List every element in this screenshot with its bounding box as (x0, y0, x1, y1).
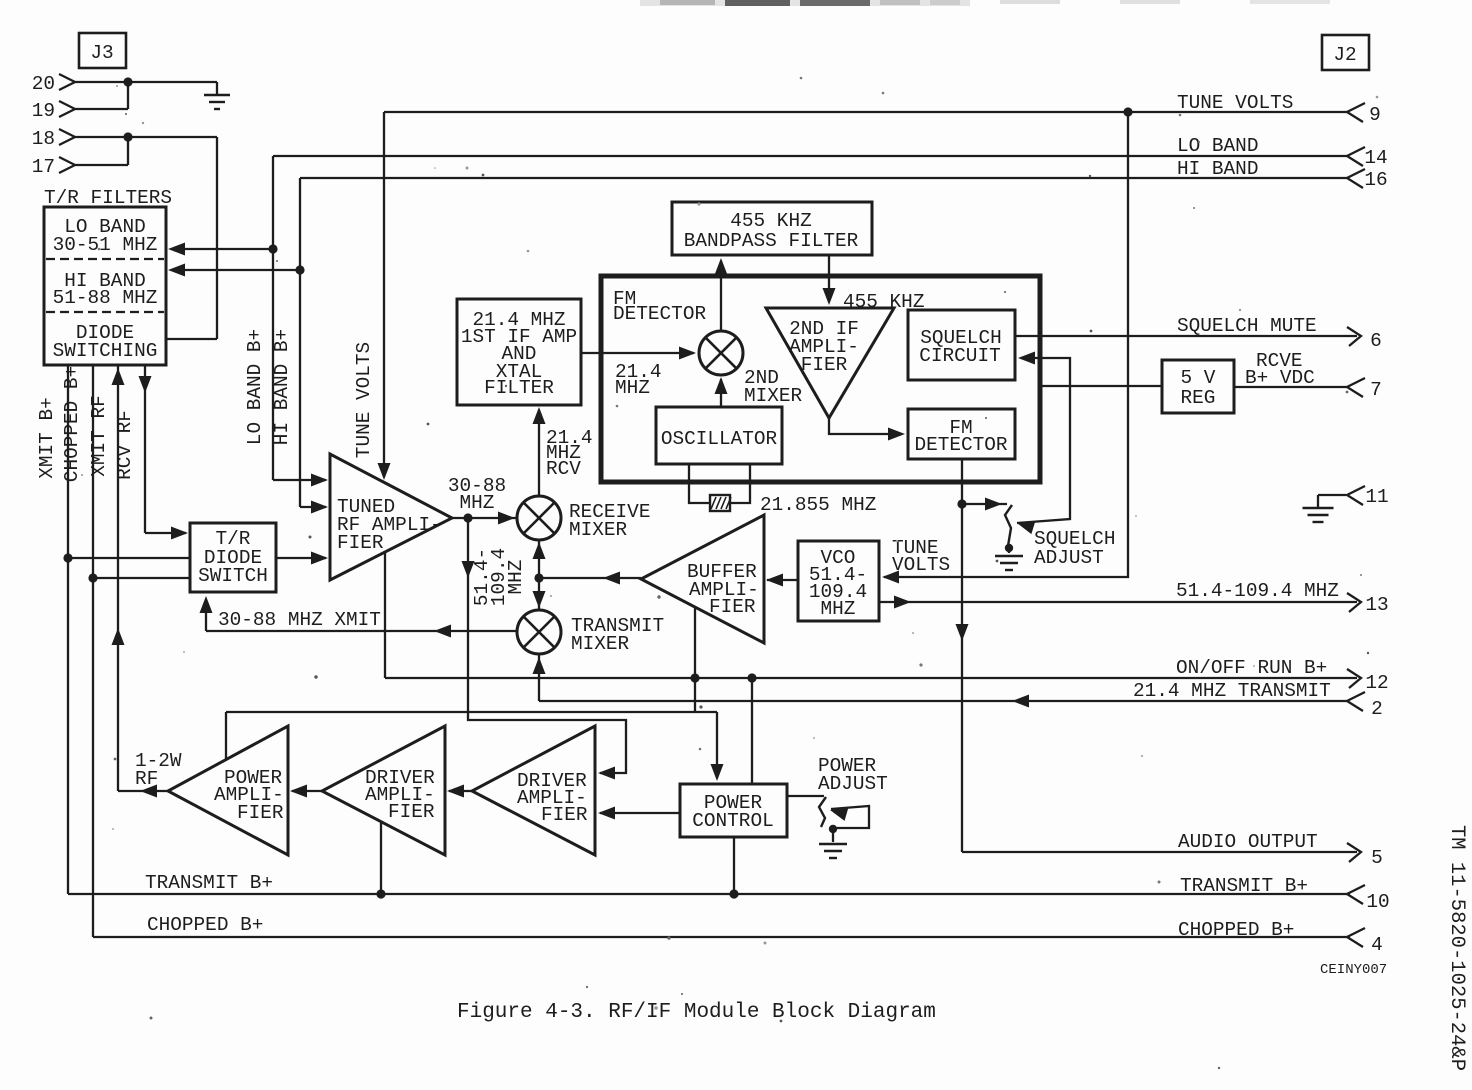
svg-text:51.4-109.4 MHZ: 51.4-109.4 MHZ (1176, 580, 1339, 602)
svg-text:OSCILLATOR: OSCILLATOR (661, 428, 778, 450)
svg-text:MHZ: MHZ (615, 377, 650, 399)
svg-text:455 KHZ: 455 KHZ (730, 210, 811, 232)
svg-text:RF: RF (135, 768, 158, 790)
svg-text:AUDIO OUTPUT: AUDIO OUTPUT (1178, 831, 1318, 853)
svg-text:TM 11-5820-1025-24&P: TM 11-5820-1025-24&P (1445, 825, 1468, 1071)
svg-text:TUNE VOLTS: TUNE VOLTS (353, 342, 375, 458)
svg-text:13: 13 (1365, 594, 1388, 616)
svg-text:HI BAND: HI BAND (1177, 158, 1258, 180)
svg-text:TUNE VOLTS: TUNE VOLTS (1177, 92, 1293, 114)
svg-text:11: 11 (1365, 486, 1388, 508)
svg-text:VOLTS: VOLTS (892, 554, 950, 576)
svg-text:FIER: FIER (237, 802, 284, 824)
svg-text:CEINY007: CEINY007 (1320, 962, 1387, 978)
svg-text:DETECTOR: DETECTOR (914, 434, 1007, 456)
svg-text:CHOPPED B+: CHOPPED B+ (147, 914, 263, 936)
svg-text:2: 2 (1371, 698, 1383, 720)
svg-text:21.4 MHZ TRANSMIT: 21.4 MHZ TRANSMIT (1133, 680, 1331, 702)
svg-text:21.855 MHZ: 21.855 MHZ (760, 494, 876, 516)
svg-text:LO BAND B+: LO BAND B+ (244, 329, 266, 445)
svg-text:CHOPPED B+: CHOPPED B+ (1178, 919, 1294, 941)
svg-text:SWITCHING: SWITCHING (53, 340, 158, 362)
svg-text:10: 10 (1366, 891, 1389, 913)
svg-text:20: 20 (32, 73, 55, 95)
svg-text:9: 9 (1369, 104, 1381, 126)
svg-text:RCV RF: RCV RF (114, 410, 136, 480)
svg-text:TRANSMIT B+: TRANSMIT B+ (145, 872, 273, 894)
svg-text:12: 12 (1365, 672, 1388, 694)
svg-text:5 V: 5 V (1181, 367, 1216, 389)
svg-text:6: 6 (1370, 330, 1382, 352)
svg-text:4: 4 (1371, 934, 1383, 956)
svg-text:J2: J2 (1333, 44, 1356, 66)
svg-text:51-88 MHZ: 51-88 MHZ (53, 287, 158, 309)
svg-text:FIER: FIER (541, 804, 588, 826)
svg-text:MHZ: MHZ (460, 492, 495, 514)
svg-text:CONTROL: CONTROL (692, 810, 773, 832)
svg-text:RCV: RCV (546, 458, 581, 480)
svg-text:CHOPPED B+: CHOPPED B+ (61, 366, 83, 482)
svg-text:MHZ: MHZ (505, 560, 527, 595)
svg-text:18: 18 (32, 128, 55, 150)
svg-text:FIER: FIER (709, 596, 756, 618)
svg-text:TRANSMIT B+: TRANSMIT B+ (1180, 875, 1308, 897)
svg-text:7: 7 (1370, 379, 1382, 401)
svg-text:ADJUST: ADJUST (818, 773, 888, 795)
svg-text:Figure 4-3. RF/IF Module Bloc: Figure 4-3. RF/IF Module Block Diagram (457, 1001, 936, 1024)
svg-text:MHZ: MHZ (821, 598, 856, 620)
svg-text:SWITCH: SWITCH (198, 565, 268, 587)
svg-text:HI BAND B+: HI BAND B+ (271, 329, 293, 445)
svg-text:FIER: FIER (337, 532, 384, 554)
svg-text:30-51 MHZ: 30-51 MHZ (53, 234, 158, 256)
svg-text:MIXER: MIXER (744, 385, 803, 407)
svg-text:LO BAND: LO BAND (1177, 135, 1258, 157)
svg-text:14: 14 (1364, 147, 1387, 169)
svg-text:FIER: FIER (801, 354, 848, 376)
svg-text:19: 19 (32, 100, 55, 122)
svg-text:30-88 MHZ XMIT: 30-88 MHZ XMIT (218, 609, 381, 631)
svg-text:B+ VDC: B+ VDC (1245, 367, 1315, 389)
svg-text:REG: REG (1181, 387, 1216, 409)
svg-text:FILTER: FILTER (484, 377, 554, 399)
svg-text:SQUELCH MUTE: SQUELCH MUTE (1177, 315, 1317, 337)
svg-text:J3: J3 (90, 42, 113, 64)
svg-text:CIRCUIT: CIRCUIT (919, 345, 1000, 367)
svg-text:16: 16 (1364, 169, 1387, 191)
svg-text:BANDPASS FILTER: BANDPASS FILTER (684, 230, 859, 252)
svg-text:XMIT B+: XMIT B+ (36, 397, 58, 478)
svg-text:MIXER: MIXER (569, 519, 628, 541)
svg-text:ON/OFF RUN B+: ON/OFF RUN B+ (1176, 657, 1327, 679)
svg-text:FIER: FIER (388, 801, 435, 823)
svg-text:17: 17 (32, 156, 55, 178)
svg-text:ADJUST: ADJUST (1034, 547, 1104, 569)
svg-text:5: 5 (1371, 847, 1383, 869)
svg-text:XMIT RF: XMIT RF (88, 395, 110, 476)
svg-text:DETECTOR: DETECTOR (613, 303, 706, 325)
svg-text:MIXER: MIXER (571, 633, 630, 655)
